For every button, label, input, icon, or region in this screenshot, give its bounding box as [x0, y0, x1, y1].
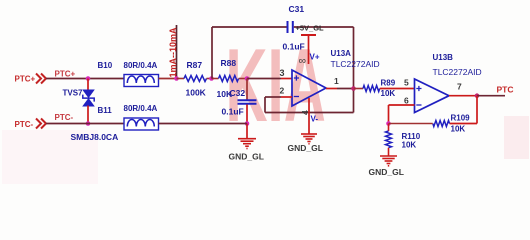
ground GND_GL under R110 — [380, 156, 397, 166]
svg-text:PTC+: PTC+ — [55, 70, 76, 79]
pin 7 output wire — [449, 95, 477, 97]
op-amp U13B — [415, 79, 450, 113]
svg-text:10K: 10K — [381, 89, 396, 98]
svg-text:0.1uF: 0.1uF — [222, 107, 244, 117]
svg-text:TLC2272AID: TLC2272AID — [331, 59, 380, 69]
resistor R110 — [386, 124, 392, 156]
svg-text:R88: R88 — [221, 58, 237, 68]
wire C31 right down to output — [353, 27, 355, 113]
svg-text:10K: 10K — [402, 141, 417, 150]
svg-text:R89: R89 — [381, 79, 396, 88]
svg-text:GND_GL: GND_GL — [288, 143, 323, 153]
svg-text:PTC-: PTC- — [55, 113, 74, 122]
svg-text:TVS7: TVS7 — [63, 89, 84, 98]
svg-text:TLC2272AID: TLC2272AID — [433, 67, 482, 77]
svg-text:GND_GL: GND_GL — [369, 167, 404, 177]
svg-text:7: 7 — [457, 82, 462, 92]
capacitor C32 — [238, 79, 257, 124]
wire PTC- port to bead B11 — [46, 123, 124, 125]
svg-text:3: 3 — [280, 68, 285, 78]
op-amp U13A — [292, 70, 326, 106]
node output U13A — [351, 86, 356, 91]
svg-text:10K: 10K — [451, 125, 466, 134]
port PTC- — [15, 119, 47, 130]
watermark KIA — [226, 27, 326, 143]
pin 3 stub — [281, 78, 292, 80]
svg-text:PTC: PTC — [497, 85, 514, 95]
svg-text:C31: C31 — [289, 4, 305, 14]
ground GND_GL under U13A — [301, 134, 317, 144]
feedback wire pin2 loop — [265, 97, 354, 113]
pin 2 stub — [281, 96, 292, 98]
port PTC+ — [15, 74, 47, 84]
svg-text:B10: B10 — [98, 61, 113, 70]
node at TVS bottom — [86, 121, 91, 126]
node pin6/R109/R110 — [386, 121, 391, 126]
ground GND_GL under C32 — [238, 124, 256, 149]
pin 6 stub and loop — [389, 105, 415, 124]
svg-text:5: 5 — [404, 78, 409, 88]
svg-text:80R/0.4A: 80R/0.4A — [124, 61, 158, 70]
wire to PTC out — [477, 95, 505, 97]
svg-text:U13A: U13A — [331, 49, 352, 58]
ferrite bead B10 — [124, 75, 159, 87]
svg-text:2: 2 — [280, 86, 285, 96]
svg-text:1: 1 — [334, 76, 339, 86]
svg-text:R87: R87 — [187, 60, 203, 70]
capacitor C31 feedback — [212, 21, 354, 79]
svg-text:C32: C32 — [230, 88, 246, 98]
wire bead B10 to node — [159, 78, 178, 80]
resistor R87 — [177, 76, 212, 82]
wire bead B11 to C32 node — [159, 123, 248, 125]
current annotation line 1mA--10mA — [176, 25, 178, 79]
node B10/R87 — [174, 76, 179, 81]
svg-text:6: 6 — [404, 96, 409, 106]
svg-text:100K: 100K — [186, 88, 207, 98]
svg-text:R109: R109 — [451, 114, 471, 123]
node R88/C32 — [245, 76, 250, 81]
resistor R109 — [389, 121, 450, 127]
resistor R89 — [354, 86, 415, 92]
svg-text:GND_GL: GND_GL — [229, 152, 264, 162]
node R87/R88/C31 — [209, 76, 214, 81]
resistor R88 — [212, 76, 248, 82]
svg-text:SMBJ8.0CA: SMBJ8.0CA — [71, 132, 119, 142]
svg-text:0.1uF: 0.1uF — [283, 42, 305, 52]
svg-text:1mA--10mA: 1mA--10mA — [168, 27, 178, 78]
wire node to pin3 — [247, 78, 281, 80]
node at TVS top — [86, 76, 91, 81]
wire PTC+ port to bead B10 — [46, 78, 124, 80]
pin 1 output wire — [326, 88, 337, 90]
ferrite bead B11 — [124, 118, 159, 130]
svg-text:U13B: U13B — [433, 53, 454, 62]
svg-text:KIA: KIA — [226, 27, 326, 143]
svg-text:PTC+: PTC+ — [15, 75, 36, 84]
svg-text:V+: V+ — [310, 53, 320, 62]
svg-text:PTC-: PTC- — [15, 120, 34, 129]
svg-text:V-: V- — [311, 115, 319, 124]
svg-text:∞: ∞ — [299, 55, 307, 67]
power +5V_GL — [296, 24, 325, 65]
feedback wire output to R109 — [450, 96, 478, 124]
svg-text:+5V_GL: +5V_GL — [296, 24, 325, 33]
node output U13B — [475, 93, 480, 98]
pin 4 V- stem — [308, 98, 310, 134]
TVS7 diode — [83, 79, 94, 124]
svg-text:80R/0.4A: 80R/0.4A — [124, 104, 158, 113]
svg-text:B11: B11 — [98, 106, 113, 115]
node C32 bottom — [245, 121, 250, 126]
